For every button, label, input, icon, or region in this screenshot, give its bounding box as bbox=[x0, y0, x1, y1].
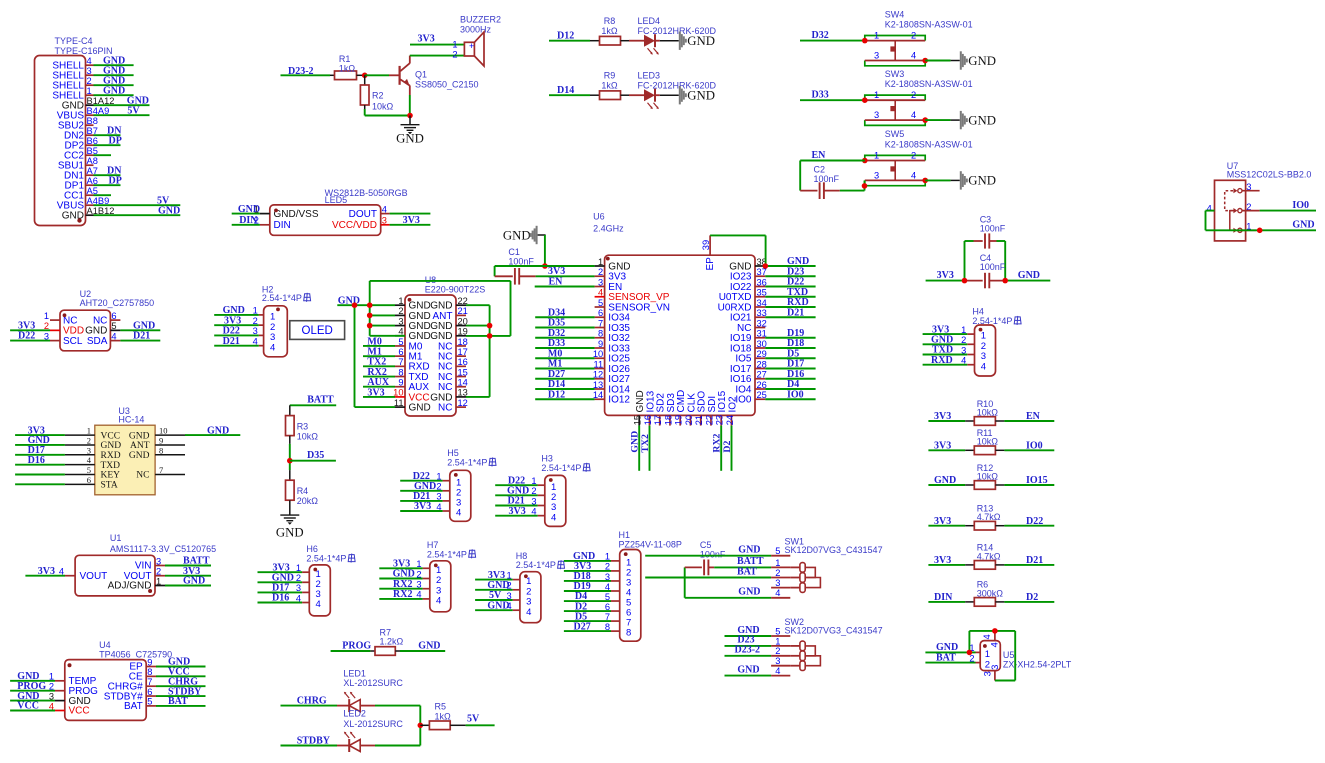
svg-text:GND: GND bbox=[129, 451, 150, 461]
switch SW4 K2-1808SN-A3SW-01 bbox=[865, 9, 973, 66]
svg-text:1: 1 bbox=[598, 257, 603, 267]
svg-text:19: 19 bbox=[674, 415, 684, 425]
svg-text:4: 4 bbox=[961, 356, 966, 366]
svg-text:9: 9 bbox=[398, 378, 403, 388]
svg-text:DOUT: DOUT bbox=[349, 209, 377, 220]
charger U4 TP4056_C725790 bbox=[10, 640, 205, 720]
svg-text:GND: GND bbox=[968, 113, 996, 127]
svg-text:3: 3 bbox=[990, 665, 1001, 670]
svg-text:5: 5 bbox=[147, 697, 152, 707]
svg-text:10kΩ: 10kΩ bbox=[297, 431, 319, 441]
svg-text:3: 3 bbox=[382, 216, 387, 226]
svg-text:2: 2 bbox=[156, 567, 161, 577]
svg-text:GND: GND bbox=[101, 441, 122, 451]
svg-text:1kΩ: 1kΩ bbox=[601, 81, 618, 91]
resistor R3 10k bbox=[286, 405, 319, 470]
svg-text:39: 39 bbox=[701, 240, 711, 250]
svg-text:SS8050_C2150: SS8050_C2150 bbox=[415, 79, 479, 89]
svg-text:1: 1 bbox=[531, 476, 536, 486]
svg-text:LED2: LED2 bbox=[343, 709, 366, 719]
svg-text:4: 4 bbox=[598, 288, 603, 298]
svg-text:GND: GND bbox=[687, 89, 715, 103]
svg-text:26: 26 bbox=[757, 380, 767, 390]
svg-text:D2: D2 bbox=[722, 441, 733, 453]
svg-text:GND: GND bbox=[503, 229, 531, 243]
switch SW2 SK12D07VG3_C431547 bbox=[725, 617, 883, 676]
wire C2 to SW5 pin3 bbox=[840, 181, 865, 191]
switch SW1 SK12D07VG3_C431547 bbox=[645, 537, 882, 599]
svg-text:D21: D21 bbox=[133, 331, 150, 342]
svg-text:Q1: Q1 bbox=[415, 70, 427, 80]
svg-text:2: 2 bbox=[911, 90, 916, 100]
svg-text:4: 4 bbox=[551, 512, 556, 523]
svg-text:3: 3 bbox=[874, 51, 879, 61]
header H3 2.54-1x4P bbox=[495, 453, 590, 526]
svg-text:GND: GND bbox=[183, 576, 205, 587]
svg-text:3: 3 bbox=[507, 591, 512, 601]
svg-text:B4A9: B4A9 bbox=[87, 106, 110, 116]
svg-text:4: 4 bbox=[990, 642, 1001, 647]
svg-text:BUZZER2: BUZZER2 bbox=[460, 14, 501, 24]
svg-text:3: 3 bbox=[775, 656, 780, 666]
svg-text:2: 2 bbox=[87, 76, 92, 86]
svg-text:1: 1 bbox=[49, 672, 54, 682]
svg-text:VOUT: VOUT bbox=[80, 571, 108, 582]
svg-text:LED3: LED3 bbox=[638, 70, 661, 80]
sensor U2 AHT20_C2757850 bbox=[10, 289, 160, 351]
svg-text:IO12: IO12 bbox=[608, 395, 630, 406]
svg-text:SDA: SDA bbox=[87, 336, 108, 347]
svg-text:K2-1808SN-A3SW-01: K2-1808SN-A3SW-01 bbox=[885, 139, 973, 149]
svg-text:4: 4 bbox=[253, 336, 258, 346]
header H4 2.54-1x4P bbox=[923, 307, 1022, 377]
wire U5 loop bbox=[969, 631, 1015, 681]
svg-text:1: 1 bbox=[961, 325, 966, 335]
svg-text:12: 12 bbox=[458, 398, 468, 408]
svg-text:D16: D16 bbox=[272, 593, 289, 604]
svg-text:7: 7 bbox=[147, 677, 152, 687]
svg-text:4: 4 bbox=[605, 582, 610, 592]
led LED2 XL-2012SURC bbox=[281, 709, 421, 753]
svg-text:17: 17 bbox=[653, 415, 663, 425]
junction GND/C1/U6 bbox=[542, 263, 548, 269]
resistor R4 20k bbox=[286, 470, 319, 515]
svg-text:100nF: 100nF bbox=[508, 257, 534, 267]
ground at SW5 bbox=[925, 171, 996, 189]
svg-text:GND: GND bbox=[934, 475, 956, 486]
svg-text:R1: R1 bbox=[339, 54, 351, 64]
svg-text:3: 3 bbox=[87, 445, 91, 455]
svg-text:1kΩ: 1kΩ bbox=[601, 26, 618, 36]
svg-text:21: 21 bbox=[458, 306, 468, 316]
svg-text:XL-2012SURC: XL-2012SURC bbox=[343, 719, 403, 729]
svg-text:HC-14: HC-14 bbox=[118, 415, 144, 425]
svg-text:DP: DP bbox=[109, 135, 122, 146]
svg-text:16: 16 bbox=[458, 357, 468, 367]
svg-text:SCL: SCL bbox=[63, 336, 83, 347]
ground at LED3 bbox=[660, 86, 715, 104]
svg-text:IO0: IO0 bbox=[787, 389, 804, 400]
net EN to U6 pin3 bbox=[535, 276, 595, 287]
svg-text:3V3: 3V3 bbox=[934, 516, 951, 527]
svg-text:18: 18 bbox=[663, 415, 673, 425]
svg-text:4: 4 bbox=[982, 634, 992, 639]
wire U6 bottom GND bbox=[630, 426, 641, 471]
svg-text:6: 6 bbox=[147, 687, 152, 697]
svg-text:2: 2 bbox=[436, 482, 441, 492]
svg-text:32: 32 bbox=[757, 318, 767, 328]
ground at LED4 bbox=[660, 32, 715, 50]
svg-text:1: 1 bbox=[253, 306, 258, 316]
svg-text:GND: GND bbox=[968, 54, 996, 68]
svg-text:VCC: VCC bbox=[101, 431, 121, 441]
svg-text:1: 1 bbox=[87, 86, 92, 96]
junction SW5 pin1 bbox=[862, 158, 868, 164]
svg-text:3: 3 bbox=[44, 331, 49, 341]
svg-text:C5: C5 bbox=[700, 540, 712, 550]
svg-text:2: 2 bbox=[44, 321, 49, 331]
svg-text:35: 35 bbox=[757, 288, 767, 298]
svg-text:D21: D21 bbox=[223, 336, 240, 347]
junction U6 pin38 bbox=[763, 263, 769, 269]
svg-text:10kΩ: 10kΩ bbox=[977, 471, 999, 481]
svg-text:7: 7 bbox=[598, 318, 603, 328]
svg-text:2: 2 bbox=[605, 562, 610, 572]
svg-text:GND: GND bbox=[129, 431, 150, 441]
svg-text:2.54-1*4P: 2.54-1*4P bbox=[541, 463, 581, 473]
svg-text:14: 14 bbox=[458, 378, 468, 388]
svg-text:SK12D07VG3_C431547: SK12D07VG3_C431547 bbox=[785, 625, 883, 635]
svg-text:K2-1808SN-A3SW-01: K2-1808SN-A3SW-01 bbox=[885, 19, 973, 29]
svg-text:5: 5 bbox=[111, 321, 116, 331]
svg-text:GND: GND bbox=[276, 526, 304, 540]
svg-text:1kΩ: 1kΩ bbox=[339, 64, 356, 74]
svg-text:4: 4 bbox=[775, 588, 780, 598]
svg-text:1: 1 bbox=[44, 311, 49, 321]
svg-text:6: 6 bbox=[598, 308, 603, 318]
svg-text:10kΩ: 10kΩ bbox=[977, 407, 999, 417]
svg-text:2: 2 bbox=[775, 646, 780, 656]
svg-text:AMS1117-3.3V_C5120765: AMS1117-3.3V_C5120765 bbox=[110, 544, 216, 554]
buzzer BUZZER2 3000Hz bbox=[452, 14, 501, 66]
svg-text:6: 6 bbox=[605, 602, 610, 612]
svg-text:9: 9 bbox=[598, 339, 603, 349]
svg-text:2.54-1*4P: 2.54-1*4P bbox=[306, 554, 346, 564]
wire R2 to emitter junction bbox=[365, 115, 410, 117]
svg-text:EN: EN bbox=[1026, 411, 1041, 422]
svg-text:GND: GND bbox=[737, 664, 759, 675]
svg-text:10: 10 bbox=[159, 426, 168, 436]
svg-text:33: 33 bbox=[757, 308, 767, 318]
svg-text:D23-2: D23-2 bbox=[735, 645, 761, 656]
svg-text:5: 5 bbox=[775, 546, 780, 556]
wire R1 to Q1 base bbox=[365, 74, 389, 76]
svg-text:8: 8 bbox=[598, 329, 603, 339]
resistor R12 10kΩ bbox=[928, 463, 1054, 490]
junction R1-R2-Q1 bbox=[362, 73, 368, 79]
svg-text:3V3: 3V3 bbox=[403, 215, 420, 226]
svg-text:2: 2 bbox=[398, 306, 403, 316]
svg-text:GND: GND bbox=[738, 587, 760, 598]
svg-text:LED5: LED5 bbox=[325, 195, 348, 205]
svg-text:16: 16 bbox=[643, 415, 653, 425]
svg-text:D27: D27 bbox=[574, 621, 591, 632]
svg-text:BAT: BAT bbox=[168, 696, 188, 707]
svg-text:R8: R8 bbox=[604, 16, 616, 26]
svg-text:4: 4 bbox=[911, 170, 916, 180]
svg-text:DP: DP bbox=[109, 175, 122, 186]
svg-text:15: 15 bbox=[633, 415, 643, 425]
svg-text:11: 11 bbox=[394, 398, 404, 408]
svg-text:3V3: 3V3 bbox=[414, 501, 431, 512]
junction SW4 pin1 bbox=[862, 38, 868, 44]
svg-text:2: 2 bbox=[775, 568, 780, 578]
svg-text:C2: C2 bbox=[814, 165, 826, 175]
svg-text:22: 22 bbox=[704, 415, 714, 425]
svg-text:NC: NC bbox=[438, 403, 452, 414]
label box OLED bbox=[290, 321, 345, 340]
svg-text:3: 3 bbox=[87, 66, 92, 76]
svg-text:1: 1 bbox=[87, 426, 91, 436]
junction Q1 emitter / GND bbox=[407, 113, 413, 119]
junction C3/C4 left bbox=[962, 278, 968, 284]
svg-text:ZX-XH2.54-2PLT: ZX-XH2.54-2PLT bbox=[1003, 660, 1072, 670]
capacitor C5 100nF bbox=[685, 540, 726, 598]
svg-text:3: 3 bbox=[49, 691, 54, 701]
junction D35 bbox=[287, 458, 293, 464]
svg-text:8: 8 bbox=[159, 445, 163, 455]
svg-text:D32: D32 bbox=[812, 30, 829, 41]
junction SW3 pin4 bbox=[922, 117, 928, 123]
svg-text:DIN: DIN bbox=[239, 215, 258, 226]
capacitor C1 100nF bbox=[495, 247, 536, 285]
svg-text:GND: GND bbox=[103, 85, 125, 96]
svg-text:2: 2 bbox=[961, 335, 966, 345]
net GND to U8 pin1 bbox=[337, 295, 395, 306]
svg-text:2: 2 bbox=[911, 31, 916, 41]
svg-text:36: 36 bbox=[757, 277, 767, 287]
svg-text:2.4GHz: 2.4GHz bbox=[593, 224, 624, 234]
svg-text:3: 3 bbox=[874, 110, 879, 120]
resistor R7 1.2k bbox=[331, 628, 446, 656]
svg-text:GND: GND bbox=[687, 34, 715, 48]
svg-text:2.54-1*4P: 2.54-1*4P bbox=[516, 560, 556, 570]
wire U8 GND bus left bbox=[355, 281, 406, 407]
svg-text:9: 9 bbox=[147, 657, 152, 667]
svg-text:4: 4 bbox=[270, 342, 275, 353]
svg-text:LED1: LED1 bbox=[343, 669, 366, 679]
svg-text:SW4: SW4 bbox=[885, 9, 905, 19]
svg-text:GND: GND bbox=[396, 132, 424, 146]
svg-text:3: 3 bbox=[416, 580, 421, 590]
capacitor C4 100nF bbox=[926, 253, 1051, 288]
header H6 2.54-1x4P bbox=[258, 544, 356, 616]
junction SW5 pin4 bbox=[922, 178, 928, 184]
svg-text:21: 21 bbox=[694, 415, 704, 425]
svg-text:9: 9 bbox=[159, 435, 163, 445]
svg-text:3: 3 bbox=[156, 556, 161, 566]
svg-text:1: 1 bbox=[874, 151, 879, 161]
svg-text:4: 4 bbox=[911, 110, 916, 120]
ground at SW4 bbox=[925, 51, 996, 69]
svg-text:SW5: SW5 bbox=[885, 129, 905, 139]
svg-text:GND: GND bbox=[418, 641, 440, 652]
net EN at SW5 bbox=[800, 150, 865, 191]
svg-text:U6: U6 bbox=[593, 212, 605, 222]
svg-text:3V3: 3V3 bbox=[509, 506, 526, 517]
svg-text:8: 8 bbox=[147, 667, 152, 677]
svg-text:25: 25 bbox=[757, 390, 767, 400]
svg-text:300kΩ: 300kΩ bbox=[977, 588, 1004, 598]
led module LED5 WS2812B-5050RGB bbox=[232, 188, 431, 235]
svg-text:1kΩ: 1kΩ bbox=[435, 711, 452, 721]
svg-text:R5: R5 bbox=[435, 702, 447, 712]
svg-text:B1A12: B1A12 bbox=[87, 96, 115, 106]
svg-text:5: 5 bbox=[775, 626, 780, 636]
svg-text:TXD: TXD bbox=[101, 461, 121, 471]
net D35 bbox=[290, 450, 336, 461]
wire Q1 collector to buzzer pin2 bbox=[410, 55, 465, 57]
svg-text:GND: GND bbox=[158, 205, 180, 216]
ground at C1 bbox=[503, 226, 546, 266]
svg-text:1: 1 bbox=[156, 576, 161, 586]
svg-text:2: 2 bbox=[49, 682, 54, 692]
svg-text:17: 17 bbox=[458, 347, 468, 357]
junction U8 right bbox=[487, 323, 493, 329]
junction U7 pin1 bbox=[1257, 228, 1263, 234]
svg-text:RX2: RX2 bbox=[393, 589, 412, 600]
capacitor C3 100nF bbox=[965, 215, 1006, 281]
resistor R8 1k bbox=[590, 16, 629, 45]
svg-text:1: 1 bbox=[416, 559, 421, 569]
svg-text:23: 23 bbox=[715, 415, 725, 425]
svg-text:R4: R4 bbox=[297, 486, 309, 496]
svg-text:4.7kΩ: 4.7kΩ bbox=[977, 551, 1001, 561]
svg-text:2: 2 bbox=[598, 267, 603, 277]
svg-text:3V3: 3V3 bbox=[38, 566, 55, 577]
svg-text:7: 7 bbox=[398, 357, 403, 367]
junction U8 bus bbox=[352, 302, 358, 308]
svg-text:TP4056_C725790: TP4056_C725790 bbox=[99, 649, 172, 659]
module U6 2.4GHz bbox=[535, 212, 815, 426]
svg-text:4: 4 bbox=[526, 607, 531, 618]
led LED3 FC-2012HRK-620D bbox=[629, 70, 717, 109]
svg-text:RXD: RXD bbox=[101, 451, 121, 461]
svg-text:TYPE-C4: TYPE-C4 bbox=[55, 36, 93, 46]
net GND at U7 bbox=[1206, 220, 1317, 231]
header H5 2.54-1x4P bbox=[400, 448, 496, 521]
svg-text:11: 11 bbox=[594, 359, 604, 369]
svg-text:4: 4 bbox=[59, 567, 64, 577]
module U3 HC-14 bbox=[15, 406, 240, 495]
svg-text:1: 1 bbox=[775, 558, 780, 568]
svg-text:D33: D33 bbox=[812, 90, 829, 101]
svg-text:BAT: BAT bbox=[124, 701, 143, 712]
ground below Q1 bbox=[396, 116, 424, 146]
svg-text:D22: D22 bbox=[18, 331, 35, 342]
svg-text:NC: NC bbox=[136, 471, 149, 481]
svg-text:4: 4 bbox=[436, 596, 441, 607]
svg-text:4: 4 bbox=[416, 590, 421, 600]
svg-text:2.54-1*4P: 2.54-1*4P bbox=[447, 457, 487, 467]
svg-text:2: 2 bbox=[296, 573, 301, 583]
svg-text:3: 3 bbox=[605, 572, 610, 582]
net 3V3 to U6 pin2 bbox=[536, 266, 595, 277]
svg-text:5: 5 bbox=[605, 592, 610, 602]
resistor R2 10k bbox=[360, 75, 393, 115]
svg-text:3V3: 3V3 bbox=[934, 441, 951, 452]
svg-text:B6: B6 bbox=[87, 136, 98, 146]
svg-text:VCC/VDD: VCC/VDD bbox=[332, 220, 377, 231]
connector U5 ZX-XH2.54-2PLT bbox=[925, 631, 1071, 681]
svg-text:D35: D35 bbox=[307, 450, 324, 461]
svg-text:5V: 5V bbox=[127, 105, 140, 116]
svg-text:BAT: BAT bbox=[737, 566, 757, 577]
svg-text:3: 3 bbox=[398, 316, 403, 326]
svg-text:4: 4 bbox=[775, 666, 780, 676]
svg-text:RXD: RXD bbox=[931, 355, 953, 366]
svg-text:100nF: 100nF bbox=[980, 262, 1006, 272]
svg-text:AHT20_C2757850: AHT20_C2757850 bbox=[80, 298, 155, 308]
svg-text:6: 6 bbox=[111, 311, 116, 321]
svg-text:8: 8 bbox=[626, 628, 631, 639]
resistor R1 1k bbox=[330, 54, 365, 80]
resistor R10 10kΩ bbox=[928, 399, 1054, 426]
svg-text:1.2kΩ: 1.2kΩ bbox=[380, 637, 404, 647]
svg-text:3: 3 bbox=[775, 578, 780, 588]
module U8 E220-900T22S bbox=[363, 275, 485, 416]
net BATT bbox=[290, 395, 336, 406]
svg-text:10kΩ: 10kΩ bbox=[977, 437, 999, 447]
junction C2/SW5 bbox=[862, 183, 868, 189]
svg-text:KEY: KEY bbox=[101, 471, 121, 481]
svg-text:3V3: 3V3 bbox=[418, 34, 435, 45]
svg-text:2: 2 bbox=[87, 435, 91, 445]
svg-text:GND: GND bbox=[207, 425, 229, 436]
svg-text:4: 4 bbox=[296, 593, 301, 603]
capacitor C2 100nF bbox=[800, 165, 840, 199]
svg-text:31: 31 bbox=[757, 329, 767, 339]
net D33 bbox=[800, 90, 865, 101]
svg-text:3: 3 bbox=[296, 583, 301, 593]
svg-text:IO2: IO2 bbox=[727, 396, 738, 413]
resistor R11 10kΩ bbox=[928, 428, 1054, 455]
svg-text:EN: EN bbox=[812, 150, 827, 161]
svg-text:1: 1 bbox=[874, 90, 879, 100]
svg-text:D21: D21 bbox=[1026, 555, 1043, 566]
svg-text:1: 1 bbox=[296, 563, 301, 573]
svg-text:3: 3 bbox=[983, 671, 993, 676]
junction R5 bbox=[418, 723, 424, 729]
wire U6 bottom D2 bbox=[722, 426, 733, 471]
svg-text:1: 1 bbox=[436, 472, 441, 482]
svg-text:4: 4 bbox=[316, 599, 321, 610]
svg-text:GND: GND bbox=[1018, 270, 1040, 281]
svg-text:1: 1 bbox=[605, 552, 610, 562]
svg-text:3: 3 bbox=[598, 277, 603, 287]
wire U8 top loop bbox=[370, 281, 511, 336]
svg-text:30: 30 bbox=[757, 339, 767, 349]
svg-text:28: 28 bbox=[757, 359, 767, 369]
svg-text:4: 4 bbox=[911, 51, 916, 61]
svg-text:18: 18 bbox=[458, 337, 468, 347]
svg-text:U1: U1 bbox=[110, 533, 122, 543]
svg-text:3: 3 bbox=[531, 496, 536, 506]
transistor Q1 SS8050_C2150 bbox=[389, 56, 479, 116]
resistor R14 4.7kΩ bbox=[928, 543, 1054, 569]
switch U7 MSS12C02LS-BB2.0 bbox=[1207, 161, 1312, 241]
net 3V3 to buzzer pin1 bbox=[410, 34, 464, 45]
